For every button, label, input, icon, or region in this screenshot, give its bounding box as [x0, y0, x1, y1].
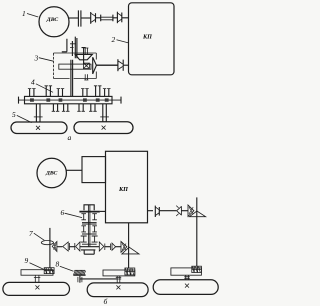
coupling C2 right cone	[176, 206, 181, 216]
gear b3 below axle	[62, 104, 70, 112]
flange coupling M1	[78, 10, 90, 26]
cone clutch M2	[91, 12, 101, 24]
gear t2 above axle	[45, 86, 53, 97]
svg-text:7: 7	[29, 229, 33, 238]
leader 6	[65, 213, 82, 217]
gears on axle centerline (dark blobs)	[30, 98, 109, 101]
leader 1	[27, 14, 38, 18]
gear column I-gears row 2	[81, 226, 97, 232]
right final drive rect	[171, 268, 202, 275]
leader 8	[60, 266, 74, 271]
right track scheme a	[74, 122, 133, 134]
clutch drum bar	[59, 64, 91, 69]
svg-text:5: 5	[12, 110, 16, 119]
central gear unit housing	[54, 53, 97, 79]
gear cluster top-left of unit	[62, 37, 77, 59]
gear end caps upper	[84, 48, 88, 55]
left final drive rect	[21, 270, 53, 276]
gear t1 above axle	[28, 89, 36, 97]
wire engine shaft	[69, 17, 78, 19]
engine DVS circle b	[37, 158, 66, 187]
gear b2 below axle	[52, 104, 60, 112]
svg-text:9: 9	[25, 256, 29, 265]
left sprocket cross b	[35, 285, 39, 289]
svg-text:а: а	[68, 133, 72, 142]
gear column bottom bracket	[81, 250, 95, 254]
right sprocket cross b	[185, 284, 189, 288]
axle left bearing	[18, 97, 20, 104]
brake hatched block	[73, 270, 85, 275]
leader 9	[30, 263, 44, 269]
gear b5 below axle	[89, 104, 97, 112]
svg-text:3: 3	[34, 54, 39, 63]
gear column wide bar	[79, 211, 99, 213]
left bevel crown (ellipse)	[41, 241, 53, 245]
crossed bevel box on shaft	[83, 63, 89, 68]
gear column shafts	[88, 205, 90, 247]
coupling C1 right cone	[155, 206, 159, 217]
gear column I-gears row 3	[81, 236, 98, 242]
leader 5	[17, 115, 32, 122]
axle gearbox long box	[25, 96, 113, 103]
gear column mesh bar 3	[82, 243, 97, 245]
vertical shaft of crown wheel	[82, 48, 86, 64]
wire cross shaft b left	[57, 246, 62, 248]
wire	[105, 246, 111, 248]
left vertical shaft item 7	[49, 228, 51, 268]
middle final drive rect	[103, 270, 135, 276]
svg-text:8: 8	[56, 260, 60, 269]
axle right bearing	[120, 97, 122, 104]
leader 4	[36, 84, 53, 93]
right sprocket cross	[102, 126, 106, 130]
wire right output shaft	[148, 210, 154, 212]
bevel wheel right	[189, 211, 205, 217]
left track scheme a	[11, 122, 67, 134]
leader 3	[39, 58, 54, 62]
clutch housing small rect	[82, 157, 106, 183]
left bevel pinion	[52, 242, 57, 252]
gear end caps lower	[84, 74, 88, 80]
coupling E1	[99, 242, 105, 251]
mid bevel wheel	[122, 247, 139, 254]
coupling D1	[63, 242, 70, 251]
gear t5 above axle	[94, 86, 102, 97]
middle sprocket cross	[116, 285, 120, 289]
gear b4 below axle	[77, 104, 85, 112]
mid bevel pinion	[121, 242, 127, 253]
middle drive sub-box	[125, 268, 135, 275]
gear t6 above axle	[103, 89, 111, 97]
brake shaft with flanges	[79, 276, 81, 283]
gear column mesh bar 2	[82, 233, 97, 235]
left track link b	[34, 275, 40, 282]
coupling M4 lower cone	[96, 59, 123, 71]
half axle to middle sprocket	[80, 278, 117, 280]
wire	[116, 246, 121, 248]
wire	[182, 210, 189, 212]
leader 2	[117, 40, 129, 43]
wire cross shaft through column	[80, 246, 99, 248]
svg-text:КП: КП	[142, 33, 152, 40]
left track scheme b	[3, 282, 70, 295]
svg-text:ДВС: ДВС	[46, 17, 59, 23]
gear t4 above axle	[81, 89, 89, 97]
gearbox KP box b	[106, 151, 148, 223]
svg-text:б: б	[104, 297, 108, 306]
wire box bottom stub down	[128, 223, 130, 242]
right track scheme b	[153, 280, 218, 295]
wire lower output shaft from box	[123, 64, 128, 66]
gear column mesh bars 1	[82, 222, 97, 224]
left sprocket shaft to track	[34, 104, 43, 122]
middle track scheme b	[87, 283, 148, 297]
axle centerline shaft	[19, 99, 122, 101]
svg-text:КП: КП	[118, 186, 128, 193]
gearbox KP box	[129, 3, 175, 75]
leader 7	[34, 233, 45, 240]
coupling D2	[75, 242, 80, 251]
cone gear right (D)	[93, 57, 97, 74]
wire	[69, 246, 75, 248]
svg-text:ДВС: ДВС	[45, 170, 58, 176]
mid vertical shaft to middle drive	[128, 242, 130, 269]
cone clutch M3 (mirrored)	[113, 12, 129, 24]
gear column I-gears row 1	[81, 214, 97, 220]
middle track link	[116, 276, 121, 283]
wire column to box link	[100, 210, 106, 212]
engine DVS circle	[39, 7, 69, 37]
svg-text:4: 4	[31, 78, 35, 87]
wire down shafts to axle	[71, 60, 73, 97]
svg-text:2: 2	[112, 35, 116, 44]
right track link	[184, 275, 190, 280]
wire engine to housing	[66, 169, 82, 171]
bevel pinion right	[188, 205, 194, 216]
bevel crown wheel (trapezoid)	[75, 54, 92, 59]
svg-text:6: 6	[61, 208, 65, 217]
right drive sub-box	[192, 266, 202, 272]
gear t3 above axle	[57, 89, 65, 97]
right sprocket shaft to track	[100, 104, 109, 122]
coupling E2	[111, 243, 116, 250]
gear column top bracket	[84, 205, 94, 210]
svg-text:1: 1	[22, 9, 26, 18]
vertical shaft to right track	[196, 197, 198, 266]
wire unit to coupling	[96, 64, 118, 66]
cardan shaft with bracket ends	[101, 15, 113, 22]
left sprocket cross	[36, 126, 40, 130]
wire	[159, 210, 176, 212]
left drive sub-box	[44, 268, 54, 274]
